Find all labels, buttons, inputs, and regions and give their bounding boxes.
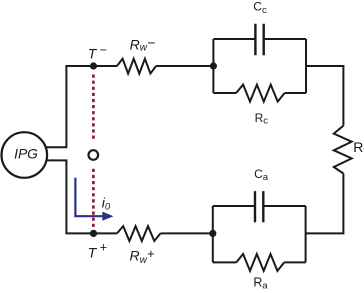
svg-text:Ra: Ra: [253, 275, 268, 291]
resistor Ra zigzag: [236, 254, 284, 271]
top RC block top rail right segment: [264, 38, 306, 40]
wire: Rw+ to bottom block left node: [161, 232, 213, 234]
measurement dashed line lower segment (red): [92, 169, 95, 229]
bottom RC block top rail right segment: [263, 205, 305, 207]
svg-text:Rw+: Rw+: [130, 246, 155, 266]
svg-text:T +: T +: [88, 241, 107, 261]
svg-text:IPG: IPG: [14, 147, 38, 162]
wire: Rw- to top block left node: [156, 65, 213, 67]
wire: right rail lower vertical and across to bottom block: [306, 174, 344, 234]
svg-text:Cc: Cc: [253, 0, 267, 16]
node T- dot: [90, 62, 97, 69]
node: top block left junction dot: [210, 62, 217, 69]
capacitor Ca plates: [255, 191, 263, 222]
svg-text:i0: i0: [102, 195, 111, 213]
wire: IPG top lead up to node T- and across to top RC block: [47, 66, 118, 147]
resistor Rt vertical zigzag: [334, 126, 352, 174]
capacitor Cc plates: [255, 24, 263, 55]
resistor Rw- zigzag: [117, 59, 156, 74]
top RC block bottom rail left segment: [213, 92, 236, 94]
svg-text:Rw−: Rw−: [130, 34, 156, 53]
current arrow i0 (blue elbow): [75, 178, 102, 216]
bottom RC block right edge: [305, 206, 307, 262]
svg-text:T −: T −: [88, 43, 107, 61]
top RC block right edge: [305, 39, 307, 93]
wire: IPG bottom lead down to node T+: [47, 160, 118, 233]
bottom RC block bottom rail right segment: [284, 261, 305, 263]
node T+ dot: [90, 230, 97, 237]
wire: top block to right rail and down to Rt: [306, 66, 343, 126]
resistor Rw+ zigzag: [117, 226, 161, 241]
top RC block bottom rail right segment: [285, 92, 306, 94]
svg-text:Rc: Rc: [255, 111, 269, 127]
open circle marker on measurement line: [89, 150, 99, 160]
top RC block left edge: [212, 39, 214, 93]
svg-text:Ca: Ca: [254, 167, 269, 183]
bottom RC block bottom rail left segment: [213, 261, 237, 263]
current arrow i0 head: [102, 212, 113, 221]
bottom RC block left edge: [212, 206, 214, 262]
resistor Rc zigzag: [236, 85, 284, 102]
bottom RC block top rail left segment: [213, 205, 255, 207]
IPG pulse generator circle: [2, 132, 48, 178]
measurement dashed line upper segment (red): [92, 75, 95, 141]
svg-text:Rt: Rt: [353, 139, 364, 157]
top RC block top rail left segment: [213, 38, 255, 40]
node: bottom block left junction dot: [209, 230, 216, 237]
